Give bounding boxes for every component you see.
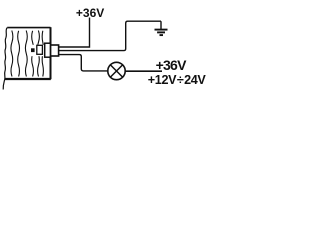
ground bar 1 bbox=[155, 29, 168, 31]
wall panel right edge bbox=[50, 27, 52, 79]
hatch wavy line 1 bbox=[11, 31, 13, 77]
connector terminal dash bbox=[31, 48, 35, 52]
wire middle to ground bbox=[59, 21, 161, 50]
lamp L1 circle bbox=[108, 62, 125, 79]
connector socket body bbox=[45, 43, 51, 57]
hatch wavy line 5 bbox=[38, 31, 40, 77]
lamp X stroke 2 bbox=[110, 65, 122, 77]
connector clearance bbox=[30, 45, 45, 56]
wire top to +36V bbox=[59, 18, 90, 48]
wall panel bottom edge bbox=[5, 78, 51, 80]
wire bottom to lamp bbox=[59, 55, 108, 71]
wall panel torn left edge bbox=[3, 28, 7, 90]
hatch wavy line 6 bbox=[42, 31, 43, 77]
svg-text:+12V ÷ 24V: +12V ÷ 24V bbox=[148, 73, 207, 87]
connector plug body bbox=[51, 45, 59, 56]
connector small housing bbox=[37, 45, 43, 54]
svg-text:+36V: +36V bbox=[156, 57, 187, 73]
wire lamp to supply labels bbox=[125, 70, 162, 72]
ground bar 2 bbox=[157, 31, 165, 33]
hatch wavy line 2 bbox=[18, 31, 20, 77]
ground stem bbox=[160, 21, 162, 29]
wall panel top edge bbox=[7, 27, 50, 29]
hatch wavy line 4 bbox=[32, 31, 34, 77]
svg-text:+36V: +36V bbox=[76, 6, 104, 20]
lamp X stroke 1 bbox=[110, 65, 122, 77]
hatch wavy line 3 bbox=[25, 31, 27, 77]
ground bar 3 bbox=[160, 34, 164, 36]
